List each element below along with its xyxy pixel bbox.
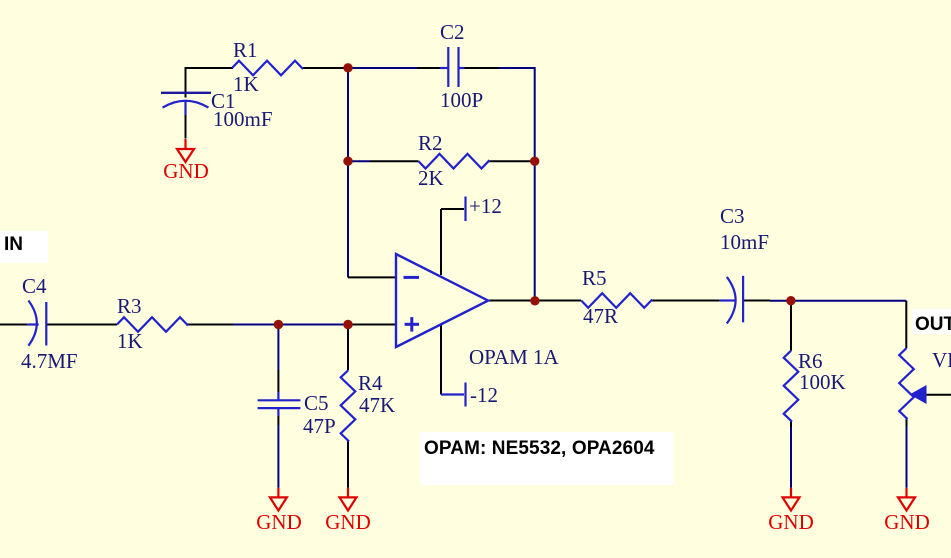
- svg-text:GND: GND: [325, 510, 371, 534]
- svg-text:OPAM: NE5532, OPA2604: OPAM: NE5532, OPA2604: [424, 438, 655, 459]
- svg-text:C4: C4: [22, 274, 47, 298]
- svg-text:VR: VR: [932, 348, 951, 372]
- svg-text:GND: GND: [884, 510, 930, 534]
- svg-text:C2: C2: [440, 20, 465, 44]
- svg-text:1K: 1K: [117, 329, 143, 353]
- svg-text:IN: IN: [4, 234, 23, 255]
- svg-text:R4: R4: [358, 371, 383, 395]
- svg-text:R3: R3: [117, 294, 142, 318]
- svg-text:100P: 100P: [440, 88, 483, 112]
- svg-text:R1: R1: [233, 38, 258, 62]
- svg-text:R2: R2: [418, 131, 443, 155]
- svg-text:C3: C3: [720, 204, 745, 228]
- svg-text:GND: GND: [163, 159, 209, 183]
- svg-text:+12: +12: [469, 194, 502, 218]
- svg-text:10mF: 10mF: [720, 230, 769, 254]
- svg-text:GND: GND: [768, 510, 814, 534]
- svg-text:GND: GND: [256, 510, 302, 534]
- svg-text:OPAM 1A: OPAM 1A: [469, 345, 560, 369]
- svg-text:100K: 100K: [799, 370, 846, 394]
- svg-text:47K: 47K: [359, 393, 395, 417]
- svg-text:-12: -12: [470, 383, 498, 407]
- svg-text:R5: R5: [582, 266, 607, 290]
- svg-text:C5: C5: [304, 391, 329, 415]
- svg-text:47R: 47R: [583, 304, 618, 328]
- svg-text:2K: 2K: [418, 166, 444, 190]
- svg-text:OUT: OUT: [915, 314, 951, 335]
- svg-text:47P: 47P: [303, 414, 336, 438]
- svg-text:4.7MF: 4.7MF: [21, 349, 78, 373]
- svg-text:1K: 1K: [233, 72, 259, 96]
- svg-text:100mF: 100mF: [213, 107, 273, 131]
